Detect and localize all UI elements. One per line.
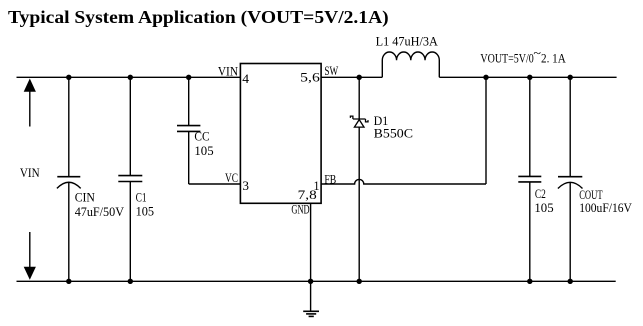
junction GND bottom — [308, 279, 313, 284]
VIN source down arrow — [24, 232, 36, 280]
junction C2 top — [527, 75, 532, 80]
junction CC top — [186, 75, 191, 80]
svg-text:B550C: B550C — [374, 126, 413, 141]
capacitor C1 — [118, 77, 154, 281]
svg-text:105: 105 — [534, 200, 553, 215]
svg-text:VIN: VIN — [20, 165, 40, 180]
svg-text:VOUT=5V/0: VOUT=5V/0 — [480, 51, 533, 66]
inductor L1 — [376, 34, 440, 78]
capacitor CIN — [57, 77, 125, 281]
svg-text:7,8: 7,8 — [298, 187, 317, 202]
junction CIN bottom — [66, 279, 71, 284]
wire SW to inductor — [321, 76, 382, 78]
svg-text:VC: VC — [225, 170, 238, 185]
capacitor COUT — [558, 77, 633, 281]
capacitor CC — [177, 77, 214, 184]
wire GND pin to ground rail — [310, 203, 312, 281]
wire inductor to VOUT right end — [439, 76, 616, 78]
svg-text:C2: C2 — [535, 186, 546, 201]
svg-text:~: ~ — [533, 45, 541, 60]
svg-text:4: 4 — [242, 71, 249, 86]
capacitor C2 — [518, 77, 553, 281]
svg-text:Typical System Application (VO: Typical System Application (VOUT=5V/2.1A… — [8, 7, 389, 27]
junction D1 bottom — [357, 279, 362, 284]
svg-text:105: 105 — [194, 143, 213, 158]
svg-text:SW: SW — [324, 63, 338, 78]
junction C2 bottom — [527, 279, 532, 284]
junction COUT top — [568, 75, 573, 80]
op-amp U1 (IC body) — [240, 64, 321, 204]
wire CC to VC pin — [189, 183, 241, 185]
ground — [303, 281, 319, 316]
junction C1 bottom — [128, 279, 133, 284]
svg-text:VIN: VIN — [218, 64, 239, 79]
junction COUT bottom — [568, 279, 573, 284]
svg-text:5,6: 5,6 — [300, 70, 320, 85]
wire FB feedback: horizontal with hop over D1 branch — [321, 179, 486, 184]
junction D1 top — [357, 75, 362, 80]
svg-text:47uF/50V: 47uF/50V — [75, 204, 125, 219]
junction FB top — [483, 75, 488, 80]
svg-text:3: 3 — [242, 178, 249, 193]
VIN source up arrow — [24, 79, 36, 127]
svg-text:GND: GND — [291, 202, 309, 217]
junction CIN top — [66, 75, 71, 80]
svg-text:L1 47uH/3A: L1 47uH/3A — [376, 34, 439, 49]
svg-text:105: 105 — [136, 204, 155, 219]
wire top rail left (VIN rail) — [17, 76, 241, 78]
junction C1 top — [128, 75, 133, 80]
wire bottom ground rail — [17, 280, 616, 282]
svg-text:CC: CC — [194, 129, 209, 144]
diode D1 (schottky B550C) — [350, 77, 413, 281]
svg-text:CIN: CIN — [75, 190, 96, 205]
svg-text:2. 1A: 2. 1A — [541, 51, 566, 66]
svg-text:100uF/16V: 100uF/16V — [579, 200, 632, 215]
wire FB feedback vertical to VOUT — [485, 77, 487, 184]
svg-text:C1: C1 — [136, 189, 147, 204]
